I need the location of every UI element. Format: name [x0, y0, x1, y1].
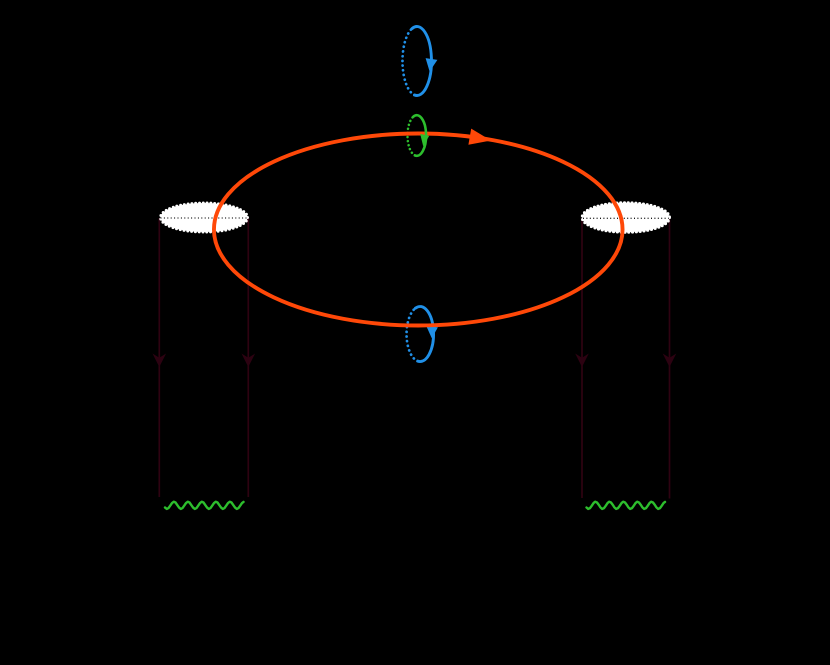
fuzzy cloud left — [161, 203, 248, 232]
hidden wire dotted right — [583, 217, 669, 219]
current arrow on left-inner lead — [242, 354, 256, 368]
current arrow on left-outer lead — [153, 354, 167, 368]
fuzzy cloud right — [582, 203, 669, 232]
current arrow on right-inner lead — [575, 354, 589, 368]
B-field loop bottom arrowhead — [426, 326, 438, 338]
wire lead right-outer — [669, 218, 671, 499]
B-field loop bottom (blue) dotted half — [407, 308, 418, 361]
wire lead left-outer — [158, 218, 160, 497]
wire lead right-inner — [581, 218, 583, 498]
B-field loop top-green solid half — [413, 115, 426, 156]
B-field loop top (blue) dotted half — [402, 29, 414, 95]
wire lead left-inner — [247, 218, 249, 497]
current direction arrowhead on loop — [468, 129, 491, 145]
B-field loop top-green dotted half — [407, 117, 414, 156]
B-field loop top-green arrowhead — [420, 134, 429, 146]
B-field loop top (blue) solid half — [412, 27, 431, 96]
B-field loop bottom (blue) solid half — [415, 307, 433, 362]
hidden wire dotted left — [161, 217, 247, 219]
B-field loop top arrowhead — [426, 58, 438, 71]
squiggle terminal right — [587, 502, 666, 509]
current arrow on right-outer lead — [663, 354, 677, 368]
squiggle terminal left — [165, 502, 244, 509]
current loop (orange ellipse) — [214, 134, 623, 326]
